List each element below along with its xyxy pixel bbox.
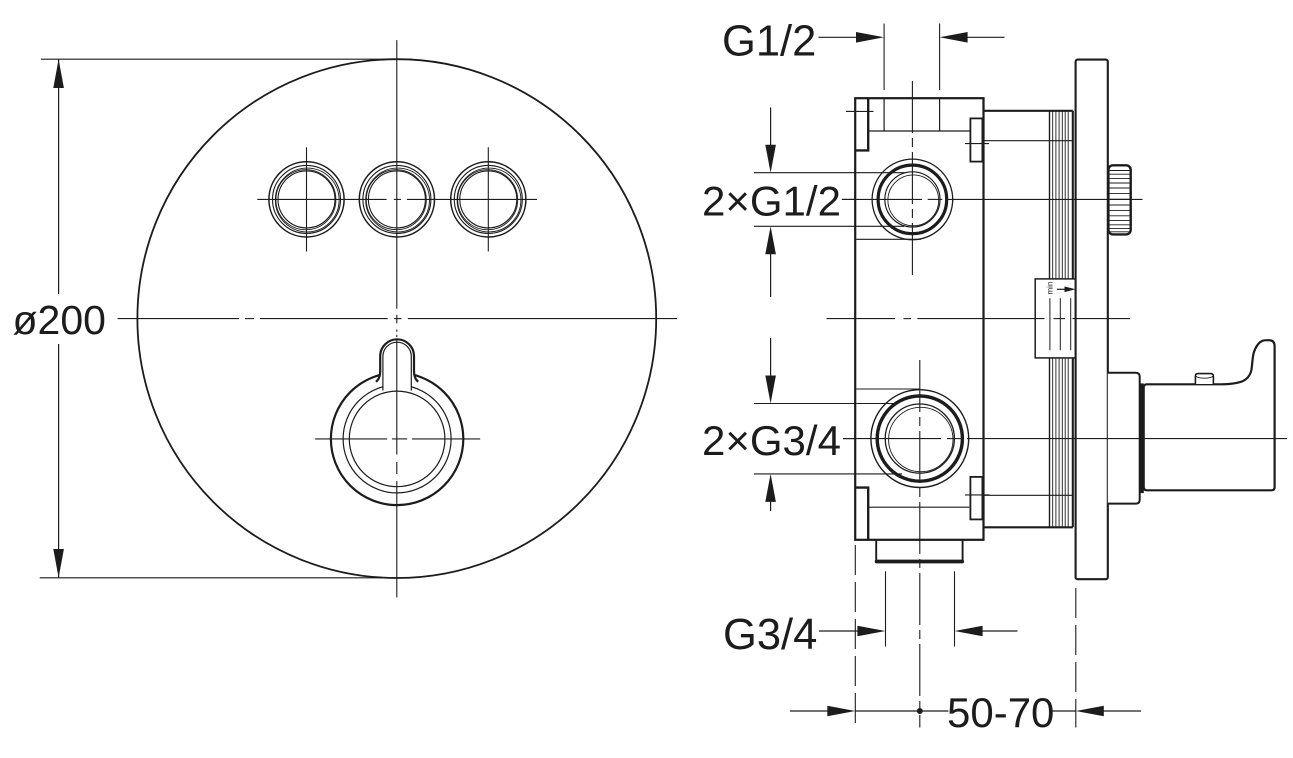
button B3 centerline vertical xyxy=(487,147,489,251)
svg-text:50-70: 50-70 xyxy=(947,689,1054,736)
outlet port bottom thread ring xyxy=(877,396,962,481)
side view axis top port xyxy=(842,198,1143,200)
svg-text:2×G1/2: 2×G1/2 xyxy=(702,177,841,224)
centerline junction dot xyxy=(917,708,923,714)
housing internal edge bottom xyxy=(984,494,1073,496)
dimension ø200 line lower segment xyxy=(58,344,60,578)
svg-text:G1/2: G1/2 xyxy=(722,17,816,65)
handle lever body xyxy=(1144,340,1275,490)
min label xyxy=(1046,282,1055,295)
side view main axis xyxy=(827,318,1131,320)
dimension G3/4 label xyxy=(723,611,817,659)
svg-text:ø200: ø200 xyxy=(13,297,106,343)
side view axis bottom port xyxy=(843,438,1287,440)
inlet bore wall right xyxy=(939,98,941,131)
dimension ø200 extension line bottom xyxy=(40,577,405,579)
dimension G1/2 leader and arrows xyxy=(819,32,1005,43)
outlet port bottom circle outer xyxy=(871,390,969,488)
dimension ø200 arrowhead up xyxy=(53,59,64,88)
wall flange plate xyxy=(1076,60,1108,580)
right boss bottom xyxy=(970,477,982,520)
dimension 50-70 extension lines xyxy=(855,545,1076,728)
boss tangent edge upper xyxy=(855,238,921,240)
inlet port top inner circles xyxy=(885,172,940,227)
front plate centerline vertical lower part xyxy=(396,340,398,598)
body internal edge lower xyxy=(868,506,969,508)
knob middle ring xyxy=(343,385,451,493)
knob tab inner outline xyxy=(383,342,411,390)
dimension G1/2 extension lines xyxy=(884,24,940,91)
knob centerline horizontal xyxy=(315,438,480,440)
mounting tab top-left xyxy=(855,98,868,150)
outlet port bottom inner circles xyxy=(885,404,954,473)
inlet port top thread ring xyxy=(878,165,947,234)
body internal edge upper xyxy=(868,130,970,132)
tab screw axis tick top xyxy=(846,110,874,112)
boss axis tick top xyxy=(965,143,989,145)
outlet spigot bottom xyxy=(876,540,962,562)
handle flange thick edge xyxy=(1140,383,1144,493)
dimension 50-70 line and arrows xyxy=(790,706,1141,717)
handle peg xyxy=(1195,374,1213,384)
valve body front block xyxy=(855,98,983,540)
boss tangent edge lower xyxy=(855,388,920,390)
threaded sleeve left edge xyxy=(1049,111,1051,528)
label ø200 xyxy=(13,297,106,343)
dimension 2xG3/4 label xyxy=(702,417,841,464)
svg-text:min: min xyxy=(1046,282,1055,295)
dimension 2xG1/2 leader dash xyxy=(842,198,855,200)
cartridge housing block xyxy=(984,98,1073,527)
mounting tab bottom-left xyxy=(855,488,868,540)
button B1 centerline vertical xyxy=(306,147,308,251)
svg-text:G3/4: G3/4 xyxy=(723,611,817,659)
dimension ø200 arrowhead down xyxy=(53,549,64,578)
dimension ø200 extension line top xyxy=(41,58,412,60)
front plate centerline horizontal xyxy=(118,318,677,320)
vertical centerline bottom port xyxy=(919,360,921,728)
dimension G3/4 leader and arrows xyxy=(819,626,1018,637)
knob tab white mask xyxy=(376,339,418,390)
front plate outline circle xyxy=(137,59,656,578)
button B2 xyxy=(359,162,434,237)
button B1 xyxy=(269,162,344,237)
knob tab outer outline xyxy=(376,339,418,382)
dimension 2xG1/2 extension lines xyxy=(754,173,906,227)
boss axis tick bottom xyxy=(965,494,990,496)
dimension 2xG1/2 label xyxy=(702,177,841,224)
svg-text:2×G3/4: 2×G3/4 xyxy=(702,417,841,464)
inlet port top circle outer xyxy=(872,159,953,240)
right boss top xyxy=(970,118,982,161)
inlet bore wall left xyxy=(883,98,885,131)
dimension 2xG3/4 extension lines xyxy=(754,404,902,474)
button B3 xyxy=(451,162,526,237)
min depth marker box xyxy=(1035,279,1076,358)
dimension 50-70 label xyxy=(947,689,1054,736)
dimension 2xG3/4 arrows xyxy=(765,338,776,511)
threaded sleeve ribs xyxy=(1053,111,1069,528)
dimension 2xG3/4 leader dash xyxy=(843,438,856,440)
dimension G1/2 label xyxy=(722,17,816,65)
knob outer ring xyxy=(331,373,463,505)
temperature knob knurled xyxy=(1108,165,1130,234)
vertical centerline top port xyxy=(911,81,913,278)
min arrow xyxy=(1057,287,1076,293)
front plate centerline vertical xyxy=(396,40,398,337)
housing internal edge top xyxy=(984,140,1073,142)
dimension ø200 line upper segment xyxy=(58,59,60,294)
handle base escutcheon xyxy=(1108,373,1140,504)
dimension G3/4 extension lines xyxy=(886,571,955,646)
dimension 2xG1/2 arrows xyxy=(765,108,776,298)
buttons centerline horizontal xyxy=(257,198,537,200)
knob inner ring xyxy=(349,391,445,487)
